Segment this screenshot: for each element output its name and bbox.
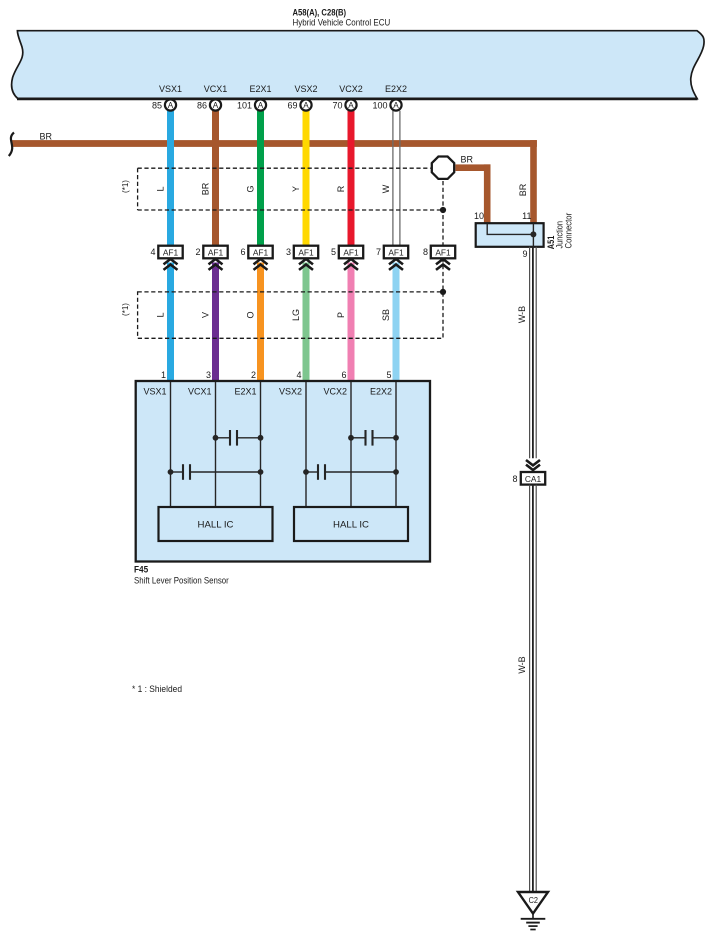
svg-text:10: 10 [474,211,484,221]
svg-text:E2X1: E2X1 [234,387,256,397]
wire V to sensor [212,263,219,382]
chevron under AF1 at x=351.0 [344,259,358,270]
ECU pin name labels [159,84,407,94]
svg-text:8: 8 [423,247,428,257]
svg-text:VCX1: VCX1 [188,387,212,397]
svg-text:70: 70 [332,100,342,110]
svg-text:VSX2: VSX2 [294,84,317,94]
svg-text:W-B: W-B [517,306,527,323]
svg-text:E2X2: E2X2 [370,387,392,397]
wire R from ECU pin VCX2 [348,111,355,246]
svg-text:AF1: AF1 [208,248,224,258]
svg-text:O: O [246,311,256,318]
svg-text:R: R [336,185,346,192]
svg-text:Hybrid Vehicle Control ECU: Hybrid Vehicle Control ECU [293,18,391,28]
svg-text:F45: F45 [134,565,149,576]
wire W-B from A51 pin 9 to CA1 [530,247,537,458]
svg-text:8: 8 [512,474,517,484]
wire BR from octagon to A51 pin 10 [456,164,491,171]
svg-text:2: 2 [195,247,200,257]
svg-text:5: 5 [386,370,391,380]
capacitor VSX1-E2X1 [171,471,184,473]
wire G from ECU pin E2X1 [257,111,264,246]
svg-text:3: 3 [286,247,291,257]
wire O to sensor [257,263,264,382]
ground stem [532,914,534,919]
F45 pin numbers [161,370,392,380]
svg-text:CA1: CA1 [525,474,542,484]
capacitor VCX2-E2X2 [351,437,366,439]
svg-text:A: A [393,101,399,110]
svg-text:* 1 : Shielded: * 1 : Shielded [132,684,182,694]
svg-text:BR: BR [461,155,474,165]
svg-text:A: A [303,101,309,110]
shield drain dashed line from octagon to AF1 #8 [442,181,444,246]
ECU banner A58(A), C28(B) [12,31,705,99]
svg-text:L: L [156,312,166,317]
svg-text:86: 86 [197,100,207,110]
connector AF1 pin 2 [195,246,227,259]
F45 internal vertical conductors [170,382,172,507]
wire SB to sensor [393,263,400,382]
svg-text:3: 3 [206,370,211,380]
junction connector A51 [476,223,544,247]
svg-text:AF1: AF1 [298,248,314,258]
svg-text:P: P [336,312,346,318]
svg-text:100: 100 [372,100,387,110]
svg-text:9: 9 [522,249,527,259]
svg-text:A: A [348,101,354,110]
connector AF1 pin 7 [376,246,408,259]
svg-text:V: V [201,312,211,318]
svg-text:11: 11 [522,211,531,221]
wire W from ECU pin E2X2 (white wire: outline only) [393,111,400,246]
torn-end squiggle of BR wire [9,133,14,157]
label F45 Shift Lever Position Sensor [134,565,229,587]
svg-text:69: 69 [287,100,297,110]
svg-text:VSX1: VSX1 [143,387,166,397]
svg-text:A: A [213,101,219,110]
svg-text:A58(A), C28(B): A58(A), C28(B) [293,8,347,18]
svg-text:LG: LG [291,309,301,321]
A51 internal junction dot [530,231,536,237]
connector AF1 pin 3 [286,246,318,259]
capacitor VCX1-E2X1 [216,437,231,439]
svg-text:AF1: AF1 [163,248,179,258]
svg-text:(*1): (*1) [121,180,130,193]
svg-text:HALL IC: HALL IC [333,520,370,530]
A51 internal bus [487,223,533,247]
wire L from ECU pin VSX1 [167,111,174,246]
svg-text:101: 101 [237,100,252,110]
A51 pin numbers [474,211,532,259]
svg-text:1: 1 [161,370,166,380]
svg-text:VCX2: VCX2 [339,84,363,94]
svg-text:C2: C2 [529,895,539,905]
svg-text:4: 4 [296,370,301,380]
connector CA1 mating chevrons (down) [526,460,540,470]
svg-text:BR: BR [40,132,53,142]
svg-text:W: W [381,184,391,193]
svg-text:4: 4 [150,247,155,257]
wire LG to sensor [303,263,310,382]
HALL IC 2 [294,507,408,541]
chevron under AF1 at x=170.5 [164,259,178,270]
chevron under AF1 at x=306.0 [299,259,313,270]
wire P to sensor [348,263,355,382]
svg-text:SB: SB [381,309,391,321]
wire Y from ECU pin VSX2 [303,111,310,246]
svg-text:VSX1: VSX1 [159,84,182,94]
junction dot (shield box lower corner) [440,289,446,295]
ECU title text [293,8,391,28]
svg-text:BR: BR [518,183,528,196]
shield box (*1) upper [138,167,431,169]
F45 internal pin name labels [143,387,392,397]
svg-text:6: 6 [341,370,346,380]
svg-text:(*1): (*1) [121,303,130,316]
connector AF1 pin 6 [240,246,272,259]
svg-text:5: 5 [331,247,336,257]
shield drain octagon [432,157,454,179]
capacitor VSX2-E2X2 [306,471,318,473]
svg-text:Y: Y [291,186,301,192]
chevron under AF1 at x=443.0 [436,259,450,270]
svg-text:VSX2: VSX2 [279,387,302,397]
svg-text:L: L [156,186,166,191]
HALL IC 1 [159,507,273,541]
wire BR horizontal from ECU area (torn end at left) [12,140,537,147]
shield box (*1) lower [138,292,443,338]
sensor F45 box [136,381,430,562]
svg-text:Connector: Connector [563,213,573,249]
svg-text:HALL IC: HALL IC [198,520,235,530]
connector AF1 pin 5 [331,246,363,259]
svg-text:AF1: AF1 [435,248,451,258]
svg-text:7: 7 [376,247,381,257]
svg-text:AF1: AF1 [388,248,404,258]
svg-text:E2X2: E2X2 [385,84,407,94]
svg-text:BR: BR [201,182,211,195]
svg-text:6: 6 [240,247,245,257]
ground hatch bars [521,919,546,930]
svg-text:E2X1: E2X1 [249,84,271,94]
chevron under AF1 at x=396.0 [389,259,403,270]
svg-text:A: A [258,101,264,110]
wire W-B from CA1 to ground [530,485,537,893]
shield dashed line below AF1 #8 [442,258,444,292]
chevron under AF1 at x=260.5 [254,259,268,270]
svg-text:Shift Lever Position Sensor: Shift Lever Position Sensor [134,576,229,587]
svg-text:W-B: W-B [517,656,527,673]
svg-text:G: G [246,185,256,192]
svg-text:AF1: AF1 [253,248,269,258]
svg-text:85: 85 [152,100,162,110]
wire BR right vertical drop to A51 pin 11 [530,140,537,224]
wire BR from ECU pin VCX1 [212,111,219,246]
ground point C2 triangle [518,892,548,914]
svg-text:AF1: AF1 [343,248,359,258]
wire L to sensor [167,263,174,382]
svg-text:A: A [168,101,174,110]
connector AF1 pin 4 [150,246,182,259]
connector AF1 pin 8 [423,246,455,259]
svg-text:2: 2 [251,370,256,380]
connector CA1 pin 8 [512,472,545,485]
junction dot (shield box upper corner) [440,207,446,213]
chevron under AF1 at x=215.5 [209,259,223,270]
svg-text:VCX1: VCX1 [204,84,228,94]
ECU connector terminals (A) with pin numbers [152,99,176,110]
ECU banner bottom heavy line [17,98,698,101]
svg-text:VCX2: VCX2 [323,387,347,397]
